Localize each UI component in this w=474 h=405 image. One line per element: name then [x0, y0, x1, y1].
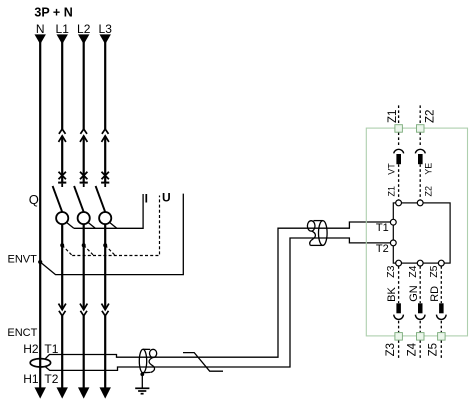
- svg-text:YE: YE: [424, 163, 434, 175]
- svg-text:H1: H1: [23, 372, 39, 386]
- svg-text:ENCT: ENCT: [7, 327, 37, 339]
- svg-text:H2: H2: [23, 342, 39, 356]
- svg-text:3P + N: 3P + N: [34, 6, 72, 20]
- svg-text:RD: RD: [429, 286, 441, 302]
- svg-text:L1: L1: [56, 22, 70, 36]
- svg-text:ENVT: ENVT: [8, 254, 38, 266]
- svg-text:Z1: Z1: [387, 110, 399, 123]
- svg-text:N: N: [36, 22, 45, 36]
- svg-text:Z5: Z5: [428, 265, 440, 277]
- svg-text:Z3: Z3: [385, 265, 397, 277]
- svg-text:GN: GN: [408, 285, 420, 302]
- svg-text:T2: T2: [376, 243, 389, 255]
- svg-text:Z2: Z2: [424, 110, 436, 123]
- svg-text:BK: BK: [386, 286, 398, 301]
- svg-text:I: I: [145, 192, 148, 206]
- svg-text:L2: L2: [77, 22, 91, 36]
- svg-text:VT: VT: [387, 163, 397, 175]
- svg-text:T1: T1: [44, 342, 58, 356]
- svg-text:Z3: Z3: [385, 343, 397, 356]
- svg-text:L3: L3: [99, 22, 113, 36]
- svg-text:Z4: Z4: [406, 342, 418, 356]
- svg-text:T2: T2: [44, 372, 58, 386]
- svg-text:Z4: Z4: [407, 265, 419, 277]
- svg-text:Z2: Z2: [424, 186, 434, 197]
- svg-text:Z1: Z1: [387, 186, 397, 197]
- svg-text:U: U: [162, 191, 171, 205]
- svg-text:T1: T1: [376, 222, 389, 234]
- svg-text:Q: Q: [29, 192, 39, 207]
- svg-text:Z5: Z5: [428, 343, 440, 356]
